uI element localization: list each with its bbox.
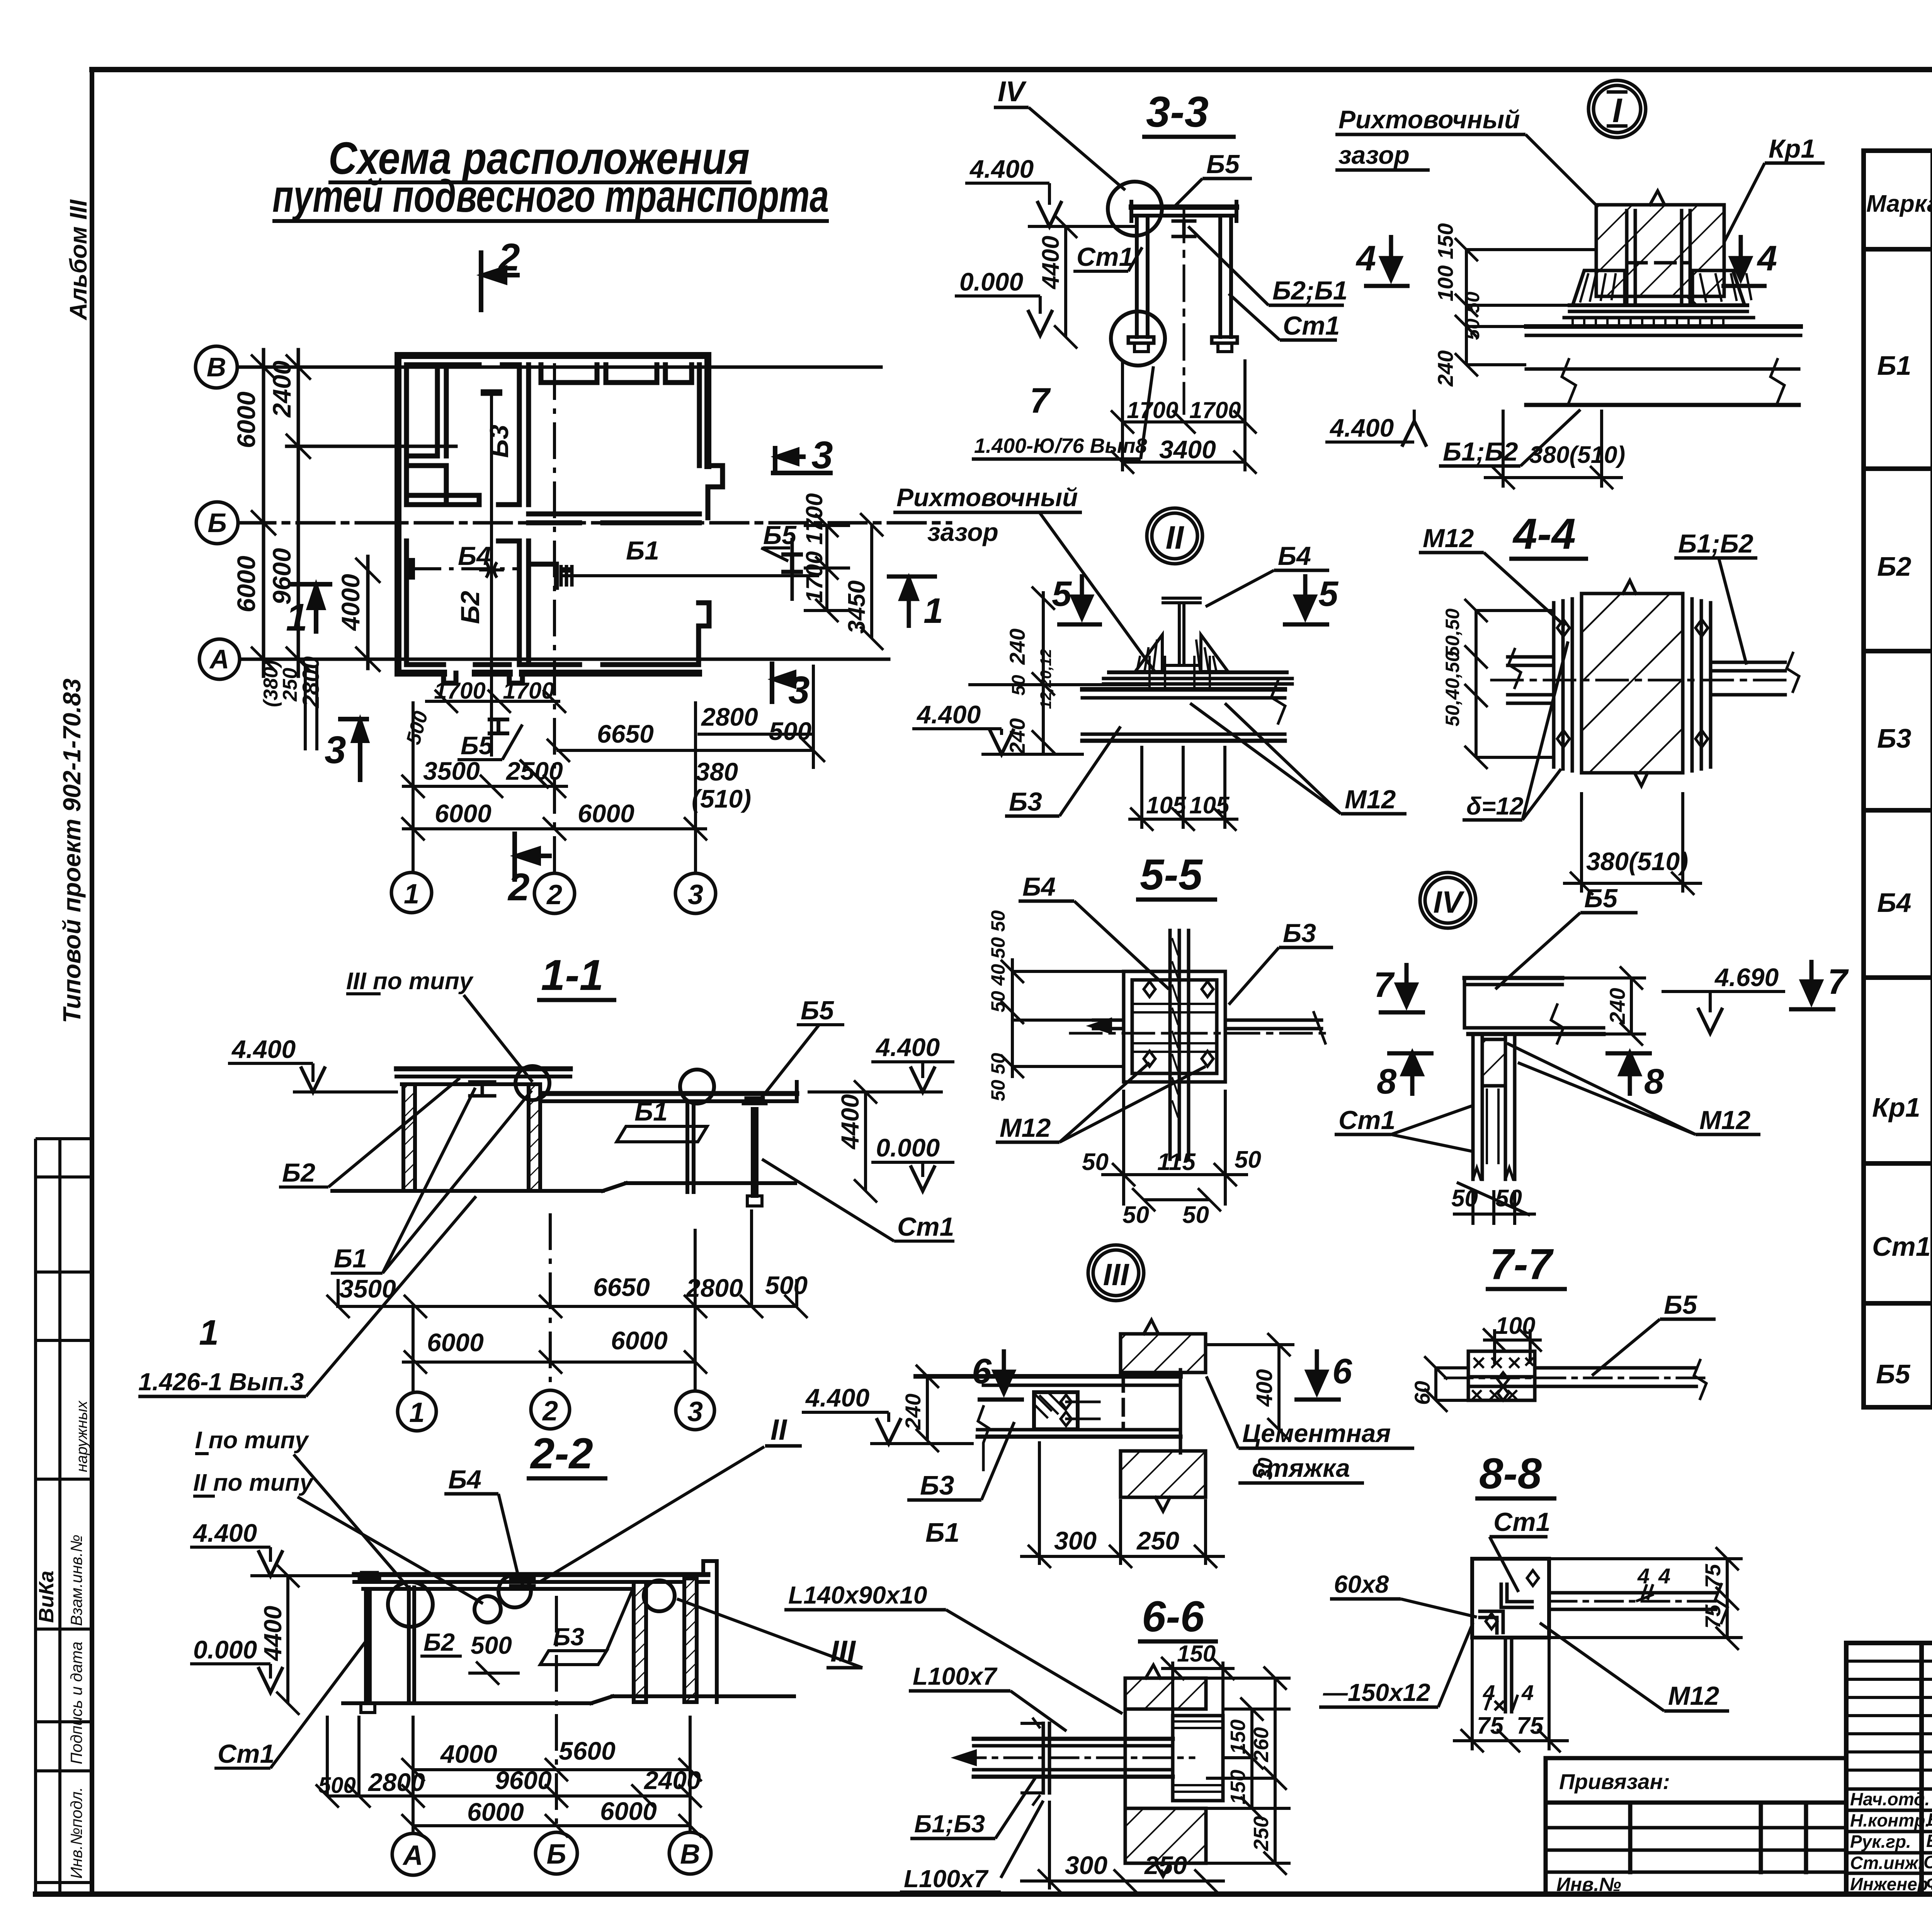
240 dim [916,1365,978,1452]
svg-text:I: I [1612,91,1622,129]
CT1 post [751,1109,755,1196]
svg-text:Ст1: Ст1 [1283,311,1340,340]
svg-text:6000: 6000 [427,1328,484,1357]
svg-text:115: 115 [1157,1149,1196,1175]
svg-text:1700: 1700 [434,678,485,704]
bottom dim chain 3500 2500 [401,363,696,872]
svg-text:Подпись и дата: Подпись и дата [67,1641,85,1764]
post below [1504,1638,1507,1712]
svg-text:3450: 3450 [844,580,870,634]
svg-text:75: 75 [1477,1713,1504,1739]
svg-text:1.426-1 Вып.3: 1.426-1 Вып.3 [138,1368,304,1396]
5-5 left dims [1001,958,1124,1078]
svg-text:Б5: Б5 [1664,1290,1697,1320]
dim chains below 1-1 [327,1209,808,1391]
svg-text:150: 150 [1226,1770,1250,1804]
svg-text:Б3: Б3 [1283,918,1316,948]
svg-text:Ст1: Ст1 [897,1212,954,1242]
signature rows [1846,1789,1932,1873]
svg-text:М12: М12 [1423,524,1474,553]
dims 300 250 under detail III [1020,1441,1225,1568]
svg-text:ВиКа: ВиКа [35,1571,58,1623]
svg-text:6: 6 [1332,1352,1352,1391]
Б2 column thin [407,1587,411,1703]
svg-text:Б4: Б4 [1877,888,1912,918]
240 dim [1562,966,1646,1046]
svg-text:4: 4 [1757,239,1777,278]
detail circles [388,1582,433,1627]
svg-text:5600: 5600 [559,1736,616,1765]
svg-text:L100х7: L100х7 [904,1865,989,1893]
svg-text:240: 240 [1005,629,1029,665]
svg-text:260: 260 [1250,1727,1273,1762]
svg-text:5-5: 5-5 [1140,850,1203,899]
svg-text:2800: 2800 [701,702,758,731]
node circle I [1588,80,1646,138]
bottom wall segments [398,670,444,677]
svg-text:2800: 2800 [685,1274,743,1302]
svg-text:Нач.отд.: Нач.отд. [1850,1789,1930,1809]
wall with beam pocket [916,1320,1206,1511]
svg-text:7: 7 [1030,381,1051,420]
Б1 rail symbol under beam [470,1082,495,1096]
outer wall top [398,352,708,359]
svg-text:4: 4 [1521,1680,1534,1705]
svg-text:250: 250 [1136,1526,1179,1555]
niche [1173,1716,1223,1801]
6-6 drawing [954,1665,1223,1876]
svg-text:Рихтовочный: Рихтовочный [1338,105,1520,134]
rail symbols on roof [359,1573,379,1579]
svg-text:240: 240 [1433,350,1458,387]
svg-text:50: 50 [1122,1202,1149,1228]
beam from left [974,1737,1173,1741]
left vertical dim chain outer [262,350,265,676]
svg-text:Ст1: Ст1 [1077,242,1133,272]
outer wall right [704,355,711,466]
svg-text:2: 2 [546,879,562,910]
svg-text:3400: 3400 [1159,435,1216,464]
svg-text:II по типу: II по типу [193,1469,315,1496]
section mark 1 left [288,584,332,634]
svg-text:4.400: 4.400 [1329,413,1394,442]
svg-text:4.400: 4.400 [969,155,1034,183]
svg-text:4400: 4400 [1037,236,1064,290]
svg-text:4.400: 4.400 [805,1383,869,1412]
svg-text:60х8: 60х8 [1334,1570,1389,1598]
svg-text:3: 3 [688,879,703,910]
svg-text:380(510): 380(510) [1586,847,1688,876]
svg-text:60: 60 [1410,1381,1434,1405]
svg-text:250: 250 [1144,1851,1187,1879]
svg-text:Б1: Б1 [626,536,659,565]
svg-text:4: 4 [1355,239,1376,278]
svg-text:240: 240 [1005,718,1029,755]
svg-text:1: 1 [199,1313,219,1352]
svg-text:Б5: Б5 [801,996,834,1025]
svg-text:500: 500 [318,1773,356,1798]
svg-text:3-3: 3-3 [1146,88,1209,136]
svg-text:Б5: Б5 [461,731,493,760]
svg-text:Инв.№подл.: Инв.№подл. [67,1787,85,1879]
portal frame of section 3-3 [1108,182,1237,413]
svg-text:2500: 2500 [505,757,563,785]
svg-text:1700 1700: 1700 1700 [801,493,827,603]
svg-text:Ст.инж.: Ст.инж. [1850,1853,1923,1873]
anchor plate with cross hatch [1034,1392,1078,1429]
svg-text:δ=12: δ=12 [1466,792,1524,820]
svg-text:Б1;Б2: Б1;Б2 [1678,529,1753,558]
svg-text:6650: 6650 [593,1273,650,1301]
column lines [1930,151,1932,1407]
svg-text:Б5: Б5 [1876,1359,1911,1389]
svg-text:II: II [770,1413,787,1446]
svg-text:3500: 3500 [423,757,480,785]
svg-text:Б2: Б2 [423,1628,455,1656]
svg-text:30: 30 [1254,1458,1277,1480]
svg-text:Б1;Б2: Б1;Б2 [1443,437,1518,466]
right dims 75 75 [1549,1547,1743,1650]
bottom mid dims 6650 2800 500 380(510) [305,665,825,769]
feet [1128,337,1154,343]
svg-text:Ст1: Ст1 [1338,1105,1395,1135]
hatched masonry column [1582,594,1683,773]
svg-text:Б2: Б2 [1877,551,1912,582]
detail IV drawing [1464,978,1604,1179]
svg-text:50,40,50: 50,40,50 [1442,651,1463,726]
svg-text:А: А [209,644,230,674]
svg-text:300: 300 [1054,1526,1097,1555]
svg-text:1: 1 [409,1397,425,1428]
svg-text:105: 105 [1189,792,1230,819]
svg-text:6000: 6000 [611,1326,668,1355]
svg-text:2: 2 [507,866,530,909]
svg-text:6000: 6000 [232,556,260,612]
svg-text:4400: 4400 [836,1094,864,1150]
svg-text:1: 1 [923,591,943,631]
right bolted plates [1690,599,1694,771]
svg-text:Б3: Б3 [485,425,514,458]
svg-text:2400: 2400 [267,361,296,418]
svg-text:150: 150 [1226,1719,1250,1754]
5-5 bottom dims [1101,1090,1248,1211]
svg-text:Альбом III: Альбом III [65,199,92,321]
svg-text:Фоменко: Фоменко [1926,1873,1932,1893]
left margin stamp strip [36,1139,92,1894]
svg-text:4-4: 4-4 [1512,510,1576,558]
svg-text:Б3: Б3 [920,1470,954,1500]
end angles [1042,1723,1045,1793]
right vertical dims 1700 1700 [804,514,850,622]
svg-text:М12: М12 [1699,1105,1750,1135]
svg-text:4.400: 4.400 [916,700,981,729]
dim 380(510) of unit I [1484,410,1623,489]
left dim chain of unit I [1455,238,1596,376]
bolts through rail plates [1150,657,1210,686]
svg-text:4.400: 4.400 [192,1519,257,1547]
svg-text:Б1;Б3: Б1;Б3 [914,1810,985,1838]
svg-text:5: 5 [1318,574,1339,614]
beam Б4 horizontal centerline [410,558,518,580]
dims 75 75 below [1453,1638,1569,1752]
section 2-2 structure [343,1561,794,1713]
node circle II [1147,508,1202,564]
svg-text:380: 380 [696,757,738,786]
svg-text:Ольховский: Ольховский [1923,1852,1932,1872]
svg-text:4: 4 [1637,1564,1650,1588]
svg-text:4: 4 [1658,1564,1670,1588]
gusset box [1124,971,1225,1082]
room partition right mid [529,562,556,567]
dims below 2-2 [316,1596,702,1837]
unit II left dims [1032,587,1055,753]
grid line А [240,658,889,661]
beam Б5 right symbol [781,538,803,601]
beam Б1 horizontal centerline [561,565,819,587]
rail under beam [1173,221,1195,236]
svg-text:7: 7 [1828,962,1849,1002]
svg-text:III по типу: III по типу [346,968,474,995]
150 dim top [1161,1657,1235,1716]
hatched concrete beam [1596,205,1724,296]
svg-text:8: 8 [1377,1062,1397,1101]
svg-text:240: 240 [1605,988,1629,1024]
svg-text:240: 240 [901,1394,925,1430]
4400 vertical dim [864,1092,867,1191]
svg-text:Б2;Б1: Б2;Б1 [1272,276,1348,305]
ground line [332,1189,603,1193]
4-4 left dim chain [1464,599,1554,769]
svg-text:50 50: 50 50 [1462,292,1483,340]
svg-text:1-1: 1-1 [541,951,604,999]
section mark 2 bottom [515,832,552,882]
svg-text:4.690: 4.690 [1714,963,1779,992]
svg-text:Н.контр.: Н.контр. [1850,1810,1930,1830]
svg-text:Б4: Б4 [458,541,491,571]
section mark 2 top [481,250,520,312]
svg-text:Привязан:: Привязан: [1559,1769,1670,1794]
beam entering wall [916,1374,1180,1379]
bolts [1144,981,1213,1066]
svg-text:250: 250 [1250,1816,1273,1851]
svg-text:2800: 2800 [298,656,324,708]
grid axis circle В [196,346,237,388]
svg-text:II: II [1166,519,1184,556]
bearing plates / rails [1570,303,1747,307]
svg-text:IV: IV [1433,885,1464,919]
svg-text:75: 75 [1701,1564,1725,1588]
internal angles [1501,1584,1532,1607]
svg-text:Инженер: Инженер [1850,1874,1928,1894]
svg-text:6650: 6650 [597,719,654,748]
svg-text:III: III [1103,1257,1129,1292]
4400 dim [1064,226,1067,337]
svg-text:Б2: Б2 [456,591,485,624]
svg-text:500: 500 [765,1271,808,1299]
svg-text:9600: 9600 [495,1766,552,1794]
svg-text:Б1: Б1 [1877,350,1912,381]
small teeth on plate within box [1132,1004,1217,1012]
svg-text:L140х90х10: L140х90х10 [788,1581,927,1609]
svg-text:8-8: 8-8 [1479,1449,1542,1498]
4000 dim line [366,556,370,668]
hatched columns right [634,1582,646,1702]
svg-text:500: 500 [769,717,811,745]
svg-text:Рук.гр.: Рук.гр. [1850,1832,1911,1852]
svg-text:8: 8 [1644,1062,1664,1101]
svg-text:Б: Б [207,508,227,538]
svg-text:Инв.№: Инв.№ [1556,1874,1621,1895]
unit I drawing [1526,191,1801,405]
left beam stub [1508,655,1554,659]
svg-text:100: 100 [1495,1313,1535,1339]
dim 380(510) of 4-4 [1563,792,1702,895]
svg-text:I по типу: I по типу [195,1427,310,1454]
beam top flange [1526,324,1801,329]
svg-text:12,20,12: 12,20,12 [1037,649,1054,709]
svg-text:Кр1: Кр1 [1769,134,1815,163]
svg-text:75: 75 [1517,1713,1544,1739]
svg-text:Типовой проект 902-1-70.83: Типовой проект 902-1-70.83 [58,679,86,1023]
svg-text:1: 1 [404,879,419,910]
svg-text:400: 400 [1252,1369,1277,1407]
CT1 thin post [364,1589,368,1703]
upper-left room partitions [444,365,449,456]
crossing beam horizontal [1094,1019,1124,1022]
svg-text:6000: 6000 [600,1797,657,1825]
dims 105 105 [1128,746,1238,831]
svg-text:(510): (510) [692,784,751,813]
svg-text:2: 2 [542,1396,558,1427]
svg-text:Б4: Б4 [1278,541,1311,571]
revision table with Привязан [1546,1758,1846,1894]
svg-text:6000: 6000 [232,391,260,448]
bottom axis circles 1 2 3 [391,872,716,913]
svg-text:Кр1: Кр1 [1872,1092,1920,1122]
svg-text:В: В [680,1839,700,1870]
svg-text:4000: 4000 [440,1740,497,1768]
svg-text:2-2: 2-2 [530,1429,593,1478]
svg-text:75: 75 [1701,1604,1725,1629]
seating plates [1109,670,1287,674]
grid axis circle Б [196,502,238,544]
svg-text:500: 500 [471,1631,512,1659]
svg-text:зазор: зазор [927,518,998,546]
svg-text:100 150: 100 150 [1433,223,1458,301]
svg-text:М12: М12 [1000,1113,1051,1143]
grid axis circle А [199,639,240,679]
inner wall on axis Б right part [529,512,699,517]
roof beams [396,1066,570,1071]
unit II drawing [970,598,1292,741]
svg-text:105: 105 [1146,792,1187,819]
svg-text:Б3: Б3 [1009,787,1042,816]
rail clamp plates [1625,211,1629,304]
table outer and mark row lines [1864,151,1932,1407]
svg-text:Б5: Б5 [763,520,797,550]
grid line Б dash-dot [238,521,951,525]
svg-text:50: 50 [1495,1185,1522,1212]
beam axis Б3 / Б2 vertical centerline [479,391,504,757]
section mark 3 bottom left [338,719,369,782]
svg-text:50: 50 [1235,1146,1261,1173]
svg-text:6000: 6000 [467,1798,524,1826]
svg-text:путей подвесного транспорта: путей подвесного транспорта [272,171,829,222]
svg-text:4.400: 4.400 [875,1033,940,1061]
axis circles below 1-1 [398,1390,714,1431]
svg-text:50: 50 [1451,1185,1478,1212]
section mark 3 top right [771,446,833,473]
svg-text:6000: 6000 [578,799,634,828]
svg-text:IV: IV [998,75,1027,107]
svg-text:Б3: Б3 [1877,723,1912,753]
50 50 dims [1453,1182,1536,1225]
svg-text:Власенко: Власенко [1927,1810,1932,1830]
svg-text:380(510): 380(510) [1529,442,1625,468]
svg-text:Ст1: Ст1 [1872,1231,1931,1262]
right dims of 6-6 [1206,1667,1291,1875]
section 1-1 structure [332,1066,797,1206]
bottom dim chain 6000 6000 [401,817,707,840]
beam to the right [1549,1591,1716,1595]
outer wall left [395,355,401,673]
svg-text:Ст1: Ст1 [218,1739,274,1769]
svg-text:3: 3 [687,1396,703,1427]
svg-text:7: 7 [1374,965,1395,1005]
svg-text:Б2: Б2 [282,1158,315,1187]
svg-text:50: 50 [1182,1202,1209,1228]
svg-text:50 50: 50 50 [987,1053,1009,1101]
beam below [1082,687,1285,692]
svg-text:150: 150 [1177,1641,1216,1667]
svg-text:3: 3 [325,728,346,772]
svg-text:Цементная: Цементная [1242,1419,1391,1447]
right beam stub [1711,661,1785,664]
svg-text:М12: М12 [1345,785,1396,814]
ground line [343,1701,591,1705]
svg-text:2800: 2800 [367,1768,425,1796]
section mark 3 bottom [772,662,804,704]
svg-text:М12: М12 [1668,1681,1719,1711]
svg-text:2: 2 [498,236,520,279]
400 / 30 dims right of detail III [1206,1333,1294,1441]
dims 300 250 under 6-6 [1020,1801,1225,1893]
svg-text:50: 50 [1009,675,1029,696]
svg-text:Боровик: Боровик [1926,1831,1932,1851]
svg-text:Б1: Б1 [334,1244,367,1273]
svg-text:0.000: 0.000 [876,1133,940,1162]
central vertical wall [517,365,522,505]
column below with channel [1471,1034,1475,1179]
svg-text:1700: 1700 [1189,397,1241,423]
svg-text:зазор: зазор [1338,141,1410,169]
columns [403,1084,415,1191]
dims under 3-3 [1111,359,1257,474]
svg-text:Б5: Б5 [1206,150,1240,179]
svg-text:5: 5 [1052,574,1072,614]
svg-text:6-6: 6-6 [1142,1592,1205,1641]
grid line В [237,366,881,369]
svg-text:L100х7: L100х7 [913,1662,998,1690]
svg-text:В: В [207,352,226,382]
svg-text:Б1: Б1 [634,1097,668,1126]
svg-text:А: А [402,1840,423,1871]
svg-text:Б5: Б5 [1584,884,1618,913]
svg-text:50: 50 [1082,1149,1109,1175]
building plan walls [398,355,723,683]
svg-text:1700: 1700 [503,678,554,704]
side bracket gussets [1573,270,1625,305]
